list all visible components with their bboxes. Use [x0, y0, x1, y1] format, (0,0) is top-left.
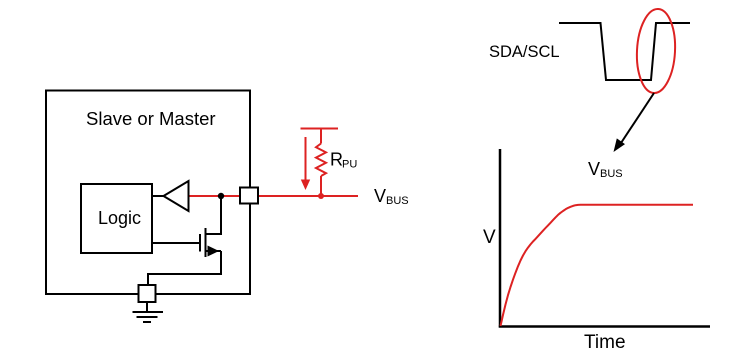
svg-text:V: V: [483, 227, 496, 248]
svg-text:BUS: BUS: [600, 168, 623, 180]
svg-text:BUS: BUS: [386, 195, 409, 207]
svg-text:SDA/SCL: SDA/SCL: [489, 43, 560, 61]
svg-text:Slave or Master: Slave or Master: [86, 108, 216, 129]
svg-text:PU: PU: [342, 159, 357, 171]
svg-text:Time: Time: [584, 332, 626, 353]
svg-text:Logic: Logic: [98, 208, 141, 228]
svg-text:V: V: [374, 186, 386, 206]
svg-text:V: V: [588, 159, 600, 179]
